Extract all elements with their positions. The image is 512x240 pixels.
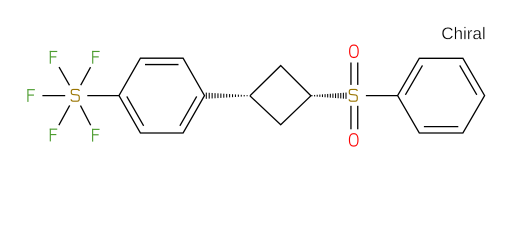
bond S to benzene ring 2 [366,95,398,97]
bond S-F top-left [59,67,69,85]
ring 1 double bond (top edge) [145,64,179,66]
bond S-F left [42,95,65,97]
fluorine F (top-right of SF5) [92,51,100,64]
S=O double bond (bottom) [350,106,352,130]
hashed wedge bond cyclobutane to sulfonyl S [312,93,346,99]
bond S-F top-right [81,67,91,85]
ring 1 double bond (lower-right edge) [180,96,197,125]
benzene ring 2 outline [398,58,485,133]
ring 2 double bond (bottom edge) [424,126,458,128]
benzene ring 1 outline [119,58,205,133]
sulfur S of sulfonyl group [349,89,357,101]
bond S-F bottom-left [59,105,70,125]
ring 1 double bond (lower-left edge) [127,96,144,125]
fluorine F (left of SF5) [27,89,34,102]
fluorine F (bottom-left of SF5) [50,129,58,142]
cyclobutane ring [250,66,311,125]
ring 2 double bond (upper-right edge) [460,65,477,94]
bond S-F bottom-right [80,106,90,126]
S=O double bond (top) [350,63,352,85]
ring 2 double bond (upper-left edge) [405,65,422,94]
oxygen O (bottom) [349,134,358,146]
hashed wedge bond ring1 to cyclobutane [206,93,247,99]
Chiral label [442,27,484,39]
fluorine F (bottom-right of SF5) [92,129,100,142]
bond S to benzene ring 1 [87,95,119,97]
sulfur S of SF5 group [71,89,79,101]
fluorine F (top-left of SF5) [50,51,58,64]
oxygen O (top) [350,45,359,57]
